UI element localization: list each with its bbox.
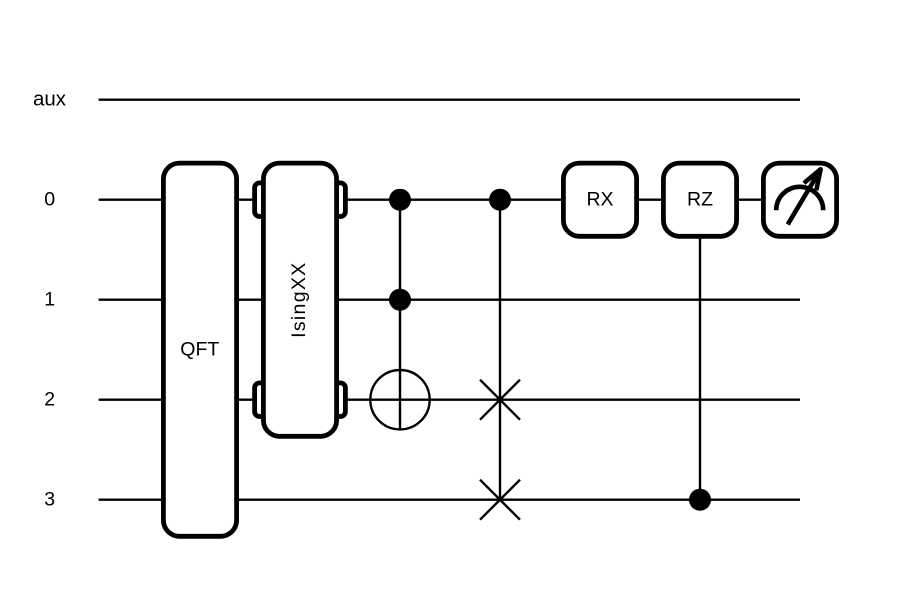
svg-text:RX: RX (586, 189, 613, 211)
svg-text:RZ: RZ (687, 189, 713, 211)
svg-text:2: 2 (44, 389, 55, 411)
svg-text:1: 1 (44, 289, 55, 311)
svg-text:3: 3 (44, 489, 55, 511)
svg-text:aux: aux (33, 88, 67, 111)
svg-text:IsingXX: IsingXX (288, 262, 310, 338)
svg-text:0: 0 (44, 189, 55, 211)
svg-text:QFT: QFT (180, 339, 219, 361)
